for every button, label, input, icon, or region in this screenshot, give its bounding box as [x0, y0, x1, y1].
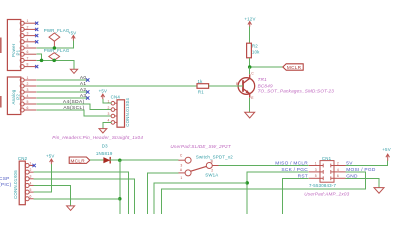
svg-text:(PIC): (PIC) — [0, 182, 12, 188]
svg-text:CONN.01X06: CONN.01X06 — [13, 170, 18, 199]
resistor R2 — [247, 43, 261, 58]
no-connect X on P1 pin 2 — [35, 28, 38, 31]
wire CN2 pin5 to +5V — [34, 164, 52, 192]
wire D3 cathode to switch C — [110, 159, 178, 161]
CN2 pin 2 — [25, 168, 33, 174]
svg-text:ICSP: ICSP — [0, 176, 10, 182]
CN2 pin 3 — [25, 175, 33, 181]
svg-text:5: 5 — [315, 174, 317, 178]
svg-text:PWR_FLAG: PWR_FLAG — [44, 48, 70, 53]
no-connect X wire A3 — [86, 96, 89, 99]
junction MCLR/CN2 pin6 — [118, 197, 122, 201]
P1 pin 6 — [20, 50, 36, 56]
svg-text:3: 3 — [315, 168, 317, 172]
wire switch B to CN1 pin1 — [219, 165, 309, 167]
power symbol +5V (P1) — [68, 31, 77, 41]
svg-text:6: 6 — [30, 195, 32, 199]
wire MCLR to D3 anode — [90, 159, 104, 161]
connector P1 body — [7, 20, 20, 71]
wire CN1 pin3 SCK left and down — [247, 172, 309, 214]
svg-text:4: 4 — [337, 168, 339, 172]
junction MCLR net — [118, 158, 122, 162]
svg-text:CN2: CN2 — [18, 156, 28, 161]
svg-text:2: 2 — [108, 106, 110, 110]
svg-text:4: 4 — [27, 38, 29, 42]
global label MCLR (top) — [283, 64, 303, 70]
wire A2 — [36, 91, 87, 93]
svg-text:MCLR: MCLR — [71, 158, 86, 163]
svg-text:TO_SOT_Packages_SMD:SOT-23: TO_SOT_Packages_SMD:SOT-23 — [258, 88, 335, 93]
svg-text:A4(SDA): A4(SDA) — [63, 99, 85, 105]
svg-text:TR1: TR1 — [258, 77, 268, 82]
wire SCK branch left down — [154, 183, 247, 214]
wire R2 to collector junction — [249, 58, 251, 67]
svg-text:5: 5 — [27, 44, 29, 48]
CN4 pin 3 — [108, 112, 118, 118]
wire CN1 pin5 RST left and down — [282, 178, 308, 214]
ground symbol (CN4) — [99, 129, 107, 133]
svg-text:3: 3 — [30, 175, 32, 179]
svg-text:+5V: +5V — [68, 31, 77, 36]
CN2 pin 6 — [25, 195, 33, 201]
CN1 pin 3 — [309, 168, 324, 172]
wire collector — [249, 67, 251, 74]
ground symbol (CN1) — [374, 188, 384, 194]
P2 pin 6 — [20, 106, 36, 112]
CN4 pin 4 — [108, 119, 118, 125]
svg-text:7: 7 — [27, 56, 29, 60]
power symbol +5V (CN4) — [99, 88, 108, 99]
svg-text:6: 6 — [337, 174, 339, 178]
no-connect X on P1 pin 3 — [35, 34, 38, 37]
CN4 pin 2 — [108, 106, 118, 112]
wire CN1 pin4 MOSI return — [162, 172, 366, 214]
wire +12V to R2 — [249, 27, 251, 44]
connector CN4 body — [111, 94, 131, 127]
svg-text:A0: A0 — [80, 75, 87, 81]
no-connect X wire A2 — [86, 90, 89, 93]
resistor R1 — [197, 79, 209, 95]
wire CN1 pin2 to +5V — [346, 161, 388, 166]
wire CN2 pin4 to ground — [34, 185, 71, 205]
wire CN2 pin2 down — [34, 172, 129, 214]
svg-text:3: 3 — [180, 163, 182, 167]
CN2 pin 1 — [25, 161, 33, 167]
CN1 pin 4 — [331, 168, 346, 172]
P1 pin 1 — [20, 19, 36, 25]
connector P2 body — [7, 77, 20, 115]
junction on pin5 net — [53, 46, 57, 50]
svg-text:Pin_Headers:Pin_Header_Straigh: Pin_Headers:Pin_Header_Straight_1x04 — [52, 135, 143, 140]
wire emitter to ground — [249, 98, 251, 112]
junction collector node — [248, 65, 252, 69]
wire A1 (to R1) — [36, 85, 197, 87]
wire +5V to CN4 pin1 — [103, 99, 112, 103]
wire MCLR net down — [119, 160, 121, 214]
diode D3 — [96, 144, 113, 164]
switch SW1A — [170, 144, 233, 177]
svg-text:6: 6 — [27, 50, 29, 54]
svg-text:R2: R2 — [252, 44, 258, 49]
power symbol +5V (CN1) — [382, 147, 391, 161]
svg-text:4: 4 — [30, 181, 32, 185]
svg-text:2: 2 — [337, 161, 339, 165]
svg-text:3: 3 — [108, 112, 110, 116]
svg-text:3: 3 — [27, 88, 29, 92]
junction pwr-flag2 — [52, 59, 56, 63]
svg-text:PWR_FLAG: PWR_FLAG — [44, 28, 70, 33]
CN1 pin 1 — [309, 161, 324, 165]
CN1 pin 2 — [331, 161, 346, 165]
svg-text:2: 2 — [211, 168, 213, 172]
P1 pin 2 — [20, 25, 36, 31]
CN2 pin 5 — [25, 188, 33, 194]
svg-text:+5V: +5V — [382, 147, 391, 152]
svg-text:R1: R1 — [198, 90, 204, 95]
svg-text:A3: A3 — [80, 93, 87, 99]
sheet text fragment left edge (P1) — [0, 38, 2, 54]
svg-text:+12V: +12V — [244, 17, 255, 22]
no-connect X on P1 pin 1 — [35, 22, 38, 25]
P1 pin 5 — [20, 44, 36, 50]
SW1A pin A — [178, 168, 191, 180]
wire P1 pin6 down — [36, 54, 41, 60]
wire CN1 pin6 to ground — [346, 178, 379, 187]
wire A0 — [36, 79, 87, 81]
ground symbol (CN2) — [67, 206, 75, 211]
svg-text:6: 6 — [27, 106, 29, 110]
wire A4(SDA) to CN4 pin2 — [36, 104, 111, 110]
wire A3 — [36, 97, 87, 99]
wire CN2 pin3 down — [34, 179, 135, 214]
connector CN1 body — [304, 156, 349, 197]
P1 pin 7 — [20, 56, 36, 62]
svg-text:A5(SCL): A5(SCL) — [63, 105, 84, 111]
P2 pin 1 — [20, 76, 36, 82]
svg-text:5: 5 — [30, 188, 32, 192]
CN1 pin 5 — [309, 174, 324, 178]
SW1A pin C — [178, 154, 191, 168]
svg-text:CN1: CN1 — [322, 156, 332, 161]
svg-text:1N5819: 1N5819 — [96, 151, 113, 156]
P2 pin 5 — [20, 100, 36, 106]
svg-text:CN4: CN4 — [111, 94, 121, 99]
svg-text:4: 4 — [27, 94, 29, 98]
label ICSP (PIC) — [0, 176, 12, 188]
P1 pin 3 — [20, 32, 36, 38]
svg-text:+5V: +5V — [99, 88, 108, 93]
P1 pin 4 — [20, 38, 36, 44]
svg-text:A2: A2 — [80, 87, 87, 93]
no-connect X wire A0 — [86, 78, 89, 81]
wire P1 pin7 to ground — [36, 60, 74, 69]
sheet text fragment left edge (P2) — [0, 96, 2, 108]
wire R1 to base — [209, 85, 243, 87]
svg-text:1k: 1k — [198, 79, 204, 84]
svg-text:1: 1 — [315, 161, 317, 165]
svg-text:CONN.01X04: CONN.01X04 — [125, 98, 130, 127]
svg-text:8: 8 — [27, 63, 29, 67]
global label MCLR (bottom) — [69, 157, 90, 163]
wire CN2 pin6 to MCLR net — [34, 198, 120, 200]
power symbol +5V (CN2) — [46, 154, 55, 165]
CN4 pin 1 — [108, 99, 118, 105]
P2 pin 3 — [20, 88, 36, 94]
svg-text:2: 2 — [30, 168, 32, 172]
svg-text:A1: A1 — [80, 81, 87, 87]
P2 pin 4 — [20, 94, 36, 100]
junction pin6/pin7 — [40, 59, 44, 63]
no-connect X CN2 pin 1 — [32, 164, 35, 167]
no-connect X on P1 pin 4 — [35, 40, 38, 43]
transistor TR1 — [236, 72, 334, 101]
svg-text:UserPad:SLIDE_SW_2P2T: UserPad:SLIDE_SW_2P2T — [170, 144, 232, 149]
P1 pin 8 — [20, 63, 36, 69]
connector CN2 body — [13, 156, 27, 205]
power symbol +12V — [244, 17, 255, 27]
no-connect X on P1 pin 8 — [35, 65, 38, 68]
svg-text:1: 1 — [30, 161, 32, 165]
svg-text:10k: 10k — [252, 49, 260, 54]
svg-text:MISO / MCLR: MISO / MCLR — [275, 161, 308, 167]
CN2 pin 4 — [25, 181, 33, 187]
svg-text:2: 2 — [27, 25, 29, 29]
svg-text:1: 1 — [27, 76, 29, 80]
svg-text:3: 3 — [27, 32, 29, 36]
svg-text:Switch_SPDT_x2: Switch_SPDT_x2 — [196, 155, 233, 160]
SW1A lever — [190, 166, 206, 171]
svg-text:2: 2 — [27, 82, 29, 86]
svg-text:1: 1 — [27, 19, 29, 23]
wire switch A left and down — [147, 173, 178, 214]
power flag PWR_FLAG 1 — [44, 28, 70, 48]
ground symbol (TR1 emitter) — [245, 112, 255, 118]
ground symbol (P1 net) — [70, 69, 77, 73]
SW1A pin B — [206, 159, 218, 172]
CN1 pin 6 — [331, 174, 346, 178]
wire junction to MCLR label — [250, 66, 283, 68]
svg-text:SW1A: SW1A — [205, 173, 218, 178]
wire P1 pin5 to +5V — [36, 40, 73, 48]
wire CN4 pin4 to ground — [103, 122, 112, 128]
svg-text:D3: D3 — [102, 144, 108, 149]
svg-text:+5V: +5V — [46, 154, 55, 159]
svg-text:1: 1 — [180, 176, 182, 180]
svg-text:MCLR: MCLR — [287, 65, 302, 70]
svg-text:5: 5 — [27, 100, 29, 104]
power flag PWR_FLAG 2 — [44, 48, 70, 60]
junction SCK net — [245, 181, 249, 185]
svg-text:P2: P2 — [16, 94, 21, 100]
P2 pin 2 — [20, 82, 36, 88]
wire A5(SCL) to CN4 pin3 — [36, 110, 111, 116]
svg-text:UserPad:AMP_2x03: UserPad:AMP_2x03 — [304, 192, 349, 197]
svg-text:7-5530843-7: 7-5530843-7 — [309, 183, 336, 188]
